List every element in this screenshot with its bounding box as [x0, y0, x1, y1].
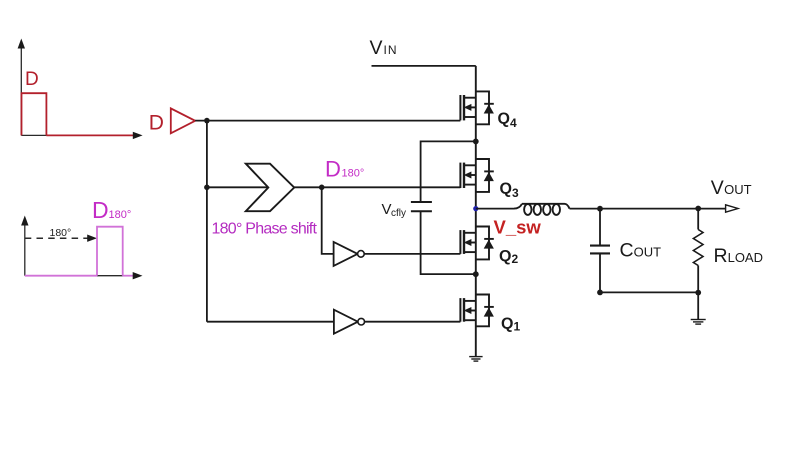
svg-text:180°: 180°	[50, 227, 72, 239]
waveform D x-axis arrowhead	[133, 132, 143, 139]
waveform D180 magenta low line right	[123, 275, 135, 277]
wire Rload bottom	[697, 266, 699, 320]
svg-text:V_sw: V_sw	[494, 216, 542, 237]
node phase tap junction dot	[204, 185, 210, 191]
waveform D180 axis vertical	[24, 225, 26, 276]
wire output bottom rail	[600, 291, 698, 293]
wire V_sw to inductor	[476, 208, 514, 210]
wire inverter 1 output to Q2 gate	[364, 253, 460, 255]
transistor Q2	[460, 227, 494, 260]
svg-text:cfly: cfly	[391, 208, 406, 219]
wire phase shift output	[294, 186, 460, 188]
node Rload bottom junction dot	[695, 290, 701, 296]
waveform D180 magenta pulse	[97, 227, 123, 276]
waveform D y-axis arrowhead	[18, 39, 25, 49]
ground below Q1	[469, 357, 482, 362]
wire inverter 2 output to Q1 gate	[365, 321, 461, 323]
waveform D180 dashed delay arrow	[25, 237, 89, 239]
VOUT arrowhead	[726, 205, 738, 212]
wire main trunk	[475, 66, 477, 357]
transistor Q4	[460, 91, 494, 124]
capacitor Cfly	[411, 202, 432, 211]
wire Rload top	[697, 209, 699, 230]
svg-text:180°: 180°	[109, 209, 132, 221]
inverter U2 bubble	[358, 251, 365, 258]
svg-text:Q: Q	[500, 181, 512, 198]
phase shift block arrow	[246, 164, 294, 212]
wire D180 down to inverter 1	[322, 187, 334, 254]
wire buffer output to Q4 gate	[195, 120, 460, 122]
node Rload top junction dot	[695, 206, 701, 212]
svg-text:D: D	[149, 112, 164, 135]
waveform D axis vertical	[20, 48, 22, 135]
svg-text:OUT: OUT	[634, 245, 662, 260]
wire inductor to output	[570, 208, 726, 210]
svg-text:Q: Q	[498, 111, 510, 128]
ground below Rload	[691, 320, 706, 325]
svg-text:V: V	[711, 177, 724, 199]
waveform D x-axis segment under pulse	[21, 134, 46, 136]
node Q4-Q3 junction dot	[473, 139, 479, 145]
svg-text:C: C	[620, 240, 634, 262]
svg-text:V: V	[370, 37, 383, 59]
inverter U2 triangle	[334, 242, 358, 266]
wire rail to inverter 2	[207, 321, 334, 323]
node D180 junction dot	[319, 185, 325, 191]
waveform D red low line	[46, 134, 134, 136]
node Cout bottom junction dot	[597, 290, 603, 296]
node V_sw blue dot	[473, 206, 478, 211]
transistor Q1	[460, 295, 494, 327]
svg-text:2: 2	[512, 252, 519, 266]
waveform D180 y-axis arrowhead	[21, 216, 28, 226]
inverter U3 triangle	[334, 310, 358, 334]
inductor L1	[514, 204, 570, 215]
waveform D180 magenta low line left	[25, 275, 97, 277]
transistor Q3	[460, 159, 494, 192]
svg-text:V: V	[382, 201, 392, 218]
svg-text:Q: Q	[499, 248, 511, 265]
capacitor Cout	[590, 246, 610, 254]
waveform D180 x-axis arrowhead	[133, 272, 143, 279]
svg-text:LOAD: LOAD	[728, 250, 763, 265]
inverter U3 bubble	[358, 318, 365, 325]
waveform D180 x-axis segment under pulse	[97, 275, 123, 277]
svg-text:D: D	[92, 197, 109, 223]
waveform D red pulse	[22, 93, 47, 135]
svg-text:3: 3	[512, 186, 519, 200]
svg-text:Q: Q	[501, 316, 513, 333]
node Cout top junction dot	[597, 206, 603, 212]
svg-text:D: D	[25, 69, 39, 90]
svg-text:1: 1	[514, 320, 521, 334]
wire Cout top	[599, 209, 601, 246]
wire cfly bottom to Q2-Q1 node	[421, 211, 476, 274]
wire VIN rail	[372, 65, 476, 67]
svg-text:IN: IN	[384, 43, 398, 57]
svg-text:OUT: OUT	[724, 182, 752, 197]
svg-text:180° Phase shift: 180° Phase shift	[212, 221, 318, 238]
buffer U1 triangle	[171, 108, 195, 133]
svg-text:R: R	[714, 245, 728, 267]
wire vertical rail from node A	[206, 121, 208, 322]
svg-text:180°: 180°	[342, 168, 365, 180]
node A junction dot	[204, 118, 210, 124]
wire rail to phase shift block	[207, 186, 268, 188]
wire Cout bottom	[599, 253, 601, 292]
svg-text:D: D	[325, 157, 341, 182]
resistor Rload	[693, 230, 703, 266]
wire cfly top from Q4-Q3 node	[421, 141, 476, 202]
node Q2-Q1 junction dot	[473, 271, 479, 277]
svg-text:4: 4	[510, 116, 517, 130]
